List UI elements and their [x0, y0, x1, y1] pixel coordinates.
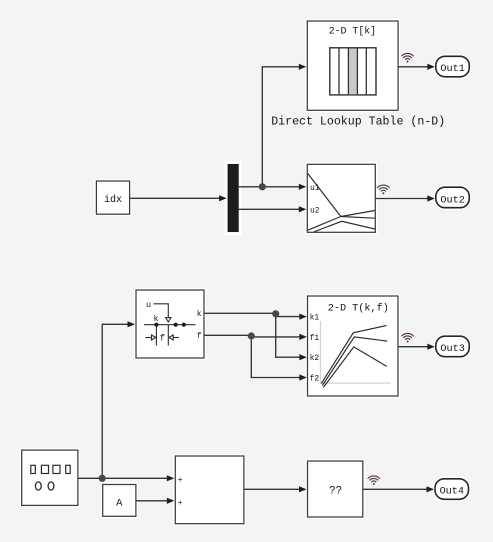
wire 2-D Lookup Table to Out2 [375, 195, 435, 201]
outport Out3 [436, 336, 470, 357]
table icon inside Direct Lookup Table [330, 48, 376, 95]
svg-text:f2: f2 [310, 375, 320, 384]
svg-text:Out4: Out4 [440, 487, 464, 498]
block Prelookup [136, 290, 204, 358]
wireless badge W3 [402, 333, 414, 342]
wire ?? to Out4 [363, 486, 434, 492]
svg-text:+: + [178, 476, 183, 485]
svg-text:Out2: Out2 [440, 195, 464, 206]
svg-text:f: f [160, 334, 165, 344]
wire idx to demux [130, 195, 227, 201]
constant icon zeros [35, 482, 54, 490]
svg-text:u: u [146, 300, 151, 310]
block Direct Lookup Table (n-D) [307, 21, 398, 110]
svg-text:f: f [197, 332, 202, 341]
block A (constant) [103, 485, 136, 517]
wire Interpolation to Out3 [398, 344, 435, 350]
block Add [175, 456, 244, 524]
svg-text:u1: u1 [310, 184, 320, 193]
svg-text:f1: f1 [310, 334, 320, 343]
block constant vector [22, 450, 78, 505]
svg-text:Out3: Out3 [440, 344, 464, 355]
block idx (constant) [96, 181, 129, 214]
wire Add to ?? block [244, 486, 307, 492]
svg-text:k: k [197, 310, 202, 319]
wireless badge W1 [402, 53, 414, 62]
outport Out4 [435, 479, 469, 500]
svg-text:k: k [153, 314, 158, 324]
svg-text:k2: k2 [310, 354, 320, 363]
block 2-D Lookup Table [307, 164, 375, 232]
wire Prelookup k out to k1 [204, 313, 307, 319]
svg-text:A: A [116, 497, 123, 509]
svg-text:Out1: Out1 [440, 64, 464, 75]
wire demux out2 to u2 [239, 206, 307, 212]
wire branch up to Direct Lookup Table input [262, 64, 306, 187]
svg-text:2-D T(k,f): 2-D T(k,f) [328, 302, 389, 314]
wire Prelookup f out to f1 [204, 334, 307, 340]
svg-text:k1: k1 [310, 314, 320, 323]
svg-text:??: ?? [329, 486, 342, 498]
wire demux out1 to u1 [239, 184, 307, 190]
svg-text:2-D T[k]: 2-D T[k] [329, 26, 376, 37]
wire k branch down to k2 [276, 313, 307, 360]
wireless badge W2 [378, 185, 390, 194]
wire A to Add in2 [136, 498, 174, 504]
constant icon glyph boxes [31, 465, 70, 473]
junction dot on demux out1 [259, 183, 266, 190]
demux [226, 162, 241, 234]
outport Out1 [436, 56, 470, 77]
wire f branch down to f2 [251, 335, 306, 380]
wire Direct Lookup Table to Out1 [398, 64, 435, 70]
wire constant to Add in1 [78, 475, 174, 481]
svg-text:+: + [178, 499, 183, 508]
interpolation plot icon [321, 321, 391, 387]
2-D Lookup Table surface icon [308, 174, 375, 233]
junction dot bottom [99, 475, 106, 482]
wireless badge W4 [368, 476, 380, 485]
block ?? [308, 461, 363, 517]
Prelookup icon [144, 304, 196, 346]
svg-text:idx: idx [104, 194, 122, 206]
svg-text:Direct Lookup Table (n-D): Direct Lookup Table (n-D) [271, 116, 445, 129]
junction dot on k wire [272, 310, 279, 317]
svg-text:u2: u2 [310, 207, 320, 216]
block Interpolation 2-D T(k,f) [308, 296, 399, 396]
junction dot on f wire [248, 332, 255, 339]
wire branch up to Prelookup input [102, 321, 135, 478]
outport Out2 [436, 187, 470, 208]
